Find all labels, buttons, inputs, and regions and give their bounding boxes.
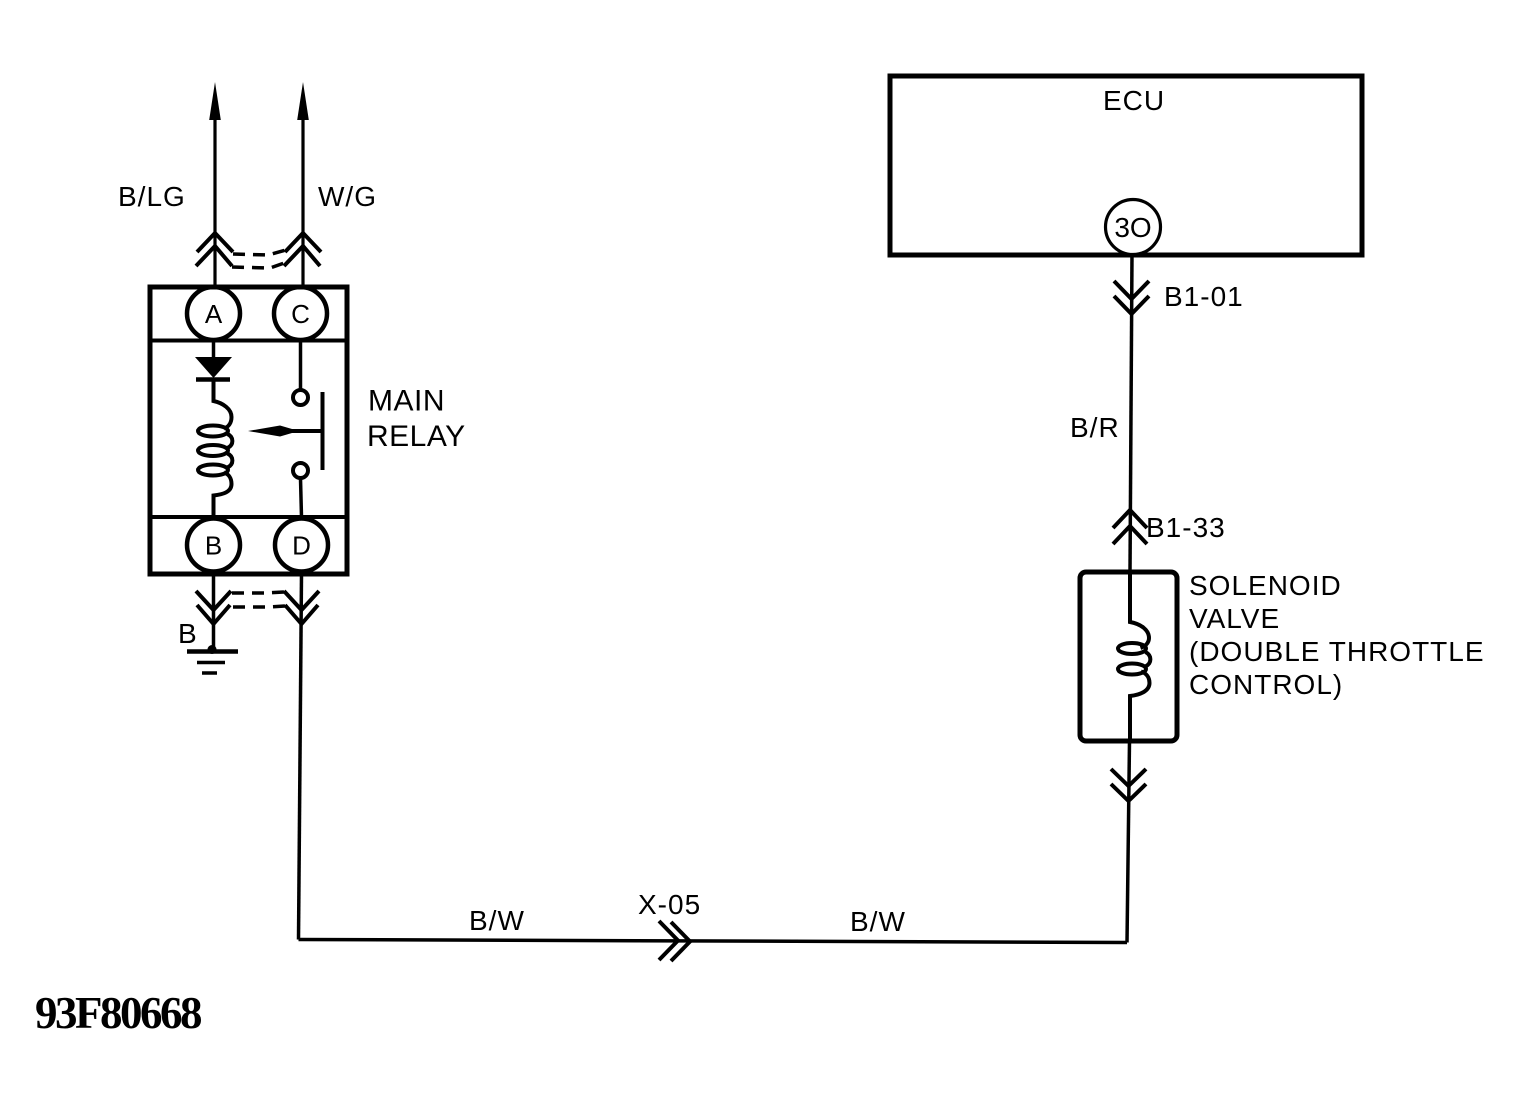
wire W/G (right power feed, arrow up) (297, 82, 309, 287)
wire from terminal B to ground (212, 574, 216, 649)
terminal C (274, 287, 327, 340)
svg-text:93F80668: 93F80668 (35, 988, 201, 1038)
connector X-05 chevrons (659, 921, 690, 961)
ECU terminal 3O (1106, 200, 1161, 255)
wire B/LG (left power feed, arrow up) (209, 82, 221, 287)
relay coil L1 (198, 379, 232, 517)
svg-text:CONTROL): CONTROL) (1189, 669, 1343, 700)
wire B/R (ECU to solenoid valve) (1130, 255, 1132, 573)
connector B1-01 chevrons (1114, 281, 1149, 314)
svg-text:W/G: W/G (318, 181, 377, 212)
svg-text:D: D (292, 531, 311, 561)
svg-text:B/R: B/R (1070, 412, 1120, 443)
svg-text:A: A (205, 299, 223, 329)
diode D1 (inside relay) (195, 341, 232, 380)
inline connector chevrons below B (196, 591, 231, 624)
switch contact lower (to D) (293, 463, 308, 478)
connector dashed link (bottom connector) (232, 592, 285, 607)
solenoid coil L2 (1118, 572, 1150, 741)
svg-text:RELAY: RELAY (367, 420, 466, 453)
solenoid valve box (1080, 572, 1177, 741)
svg-text:B/LG: B/LG (118, 181, 186, 212)
wire up to solenoid valve (1127, 741, 1130, 943)
terminal B (187, 519, 240, 572)
wire from terminal D down (299, 574, 302, 940)
svg-text:B1-33: B1-33 (1146, 512, 1226, 543)
switch contact upper (from C) (299, 341, 303, 390)
actuation arrow (coil to switch) (248, 426, 323, 437)
terminal A (187, 287, 240, 340)
ECU box (890, 76, 1362, 255)
relay box (MAIN RELAY) (150, 287, 347, 574)
inline connector chevrons below solenoid valve (1111, 769, 1146, 801)
relay bottom band line (152, 515, 345, 519)
ground symbol (187, 645, 238, 673)
inline connector chevrons on W/G wire (284, 233, 321, 266)
svg-text:C: C (291, 299, 310, 329)
svg-text:MAIN: MAIN (368, 385, 445, 418)
inline connector chevrons below D (284, 591, 319, 624)
svg-text:B/W: B/W (469, 905, 525, 936)
svg-text:X-05: X-05 (638, 889, 701, 920)
relay top band line (152, 339, 345, 343)
svg-text:B/W: B/W (850, 906, 906, 937)
terminal D (275, 519, 328, 572)
svg-text:B1-01: B1-01 (1164, 281, 1244, 312)
label SOLENOID VALVE (DOUBLE THROTTLE CONTROL) (1189, 570, 1485, 700)
svg-text:VALVE: VALVE (1189, 603, 1280, 634)
connector B1-33 chevrons (1113, 510, 1147, 544)
bottom wire B/W (horizontal run) (299, 940, 1128, 943)
svg-text:B: B (178, 618, 198, 649)
svg-text:3O: 3O (1114, 212, 1151, 243)
svg-text:B: B (205, 531, 222, 561)
svg-text:SOLENOID: SOLENOID (1189, 570, 1342, 601)
svg-text:ECU: ECU (1103, 85, 1165, 116)
svg-text:(DOUBLE THROTTLE: (DOUBLE THROTTLE (1189, 636, 1485, 667)
inline connector chevrons on B/LG wire (196, 233, 233, 266)
connector dashed link (top connector) (232, 250, 287, 268)
switch arm (321, 392, 325, 470)
